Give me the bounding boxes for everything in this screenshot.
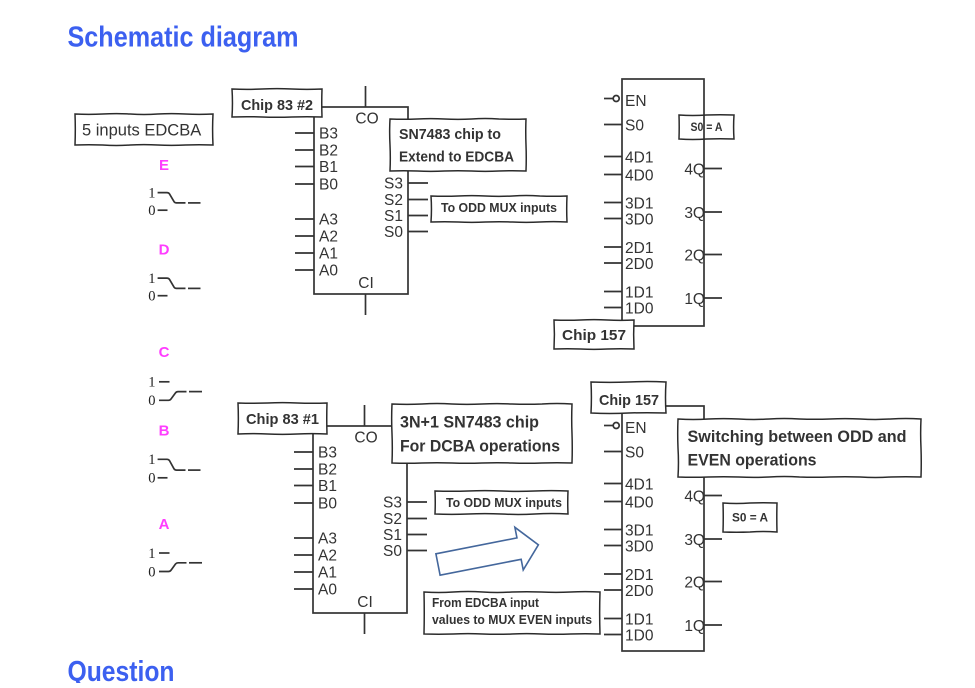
svg-text:S0: S0 [383,543,402,560]
svg-text:1D0: 1D0 [625,628,654,645]
svg-text:4D0: 4D0 [625,495,654,512]
svg-text:B3: B3 [319,125,338,142]
svg-text:3D0: 3D0 [625,539,654,556]
svg-text:2D0: 2D0 [625,256,654,273]
svg-text:2D1: 2D1 [625,567,653,584]
svg-text:0: 0 [148,289,155,305]
svg-text:A3: A3 [319,211,338,228]
svg-text:S0: S0 [384,224,403,241]
svg-text:S2: S2 [384,192,403,209]
svg-text:SN7483 chip to: SN7483 chip to [399,126,501,143]
svg-text:1Q: 1Q [684,618,705,635]
svg-text:A0: A0 [318,581,337,598]
svg-text:2D1: 2D1 [625,240,653,257]
svg-text:Chip 157: Chip 157 [599,392,659,409]
svg-text:1: 1 [148,185,155,201]
svg-text:0: 0 [148,203,155,219]
svg-text:3D0: 3D0 [625,212,654,229]
svg-text:3N+1 SN7483 chip: 3N+1 SN7483 chip [400,412,539,431]
svg-text:0: 0 [148,564,155,580]
svg-text:S1: S1 [384,208,403,225]
svg-text:3D1: 3D1 [625,196,653,213]
svg-text:1: 1 [148,375,155,391]
svg-text:S3: S3 [384,175,403,192]
svg-text:To ODD MUX inputs: To ODD MUX inputs [446,496,562,510]
svg-text:CI: CI [358,275,374,292]
svg-text:1D0: 1D0 [625,301,654,318]
svg-text:B1: B1 [319,159,338,176]
svg-text:1Q: 1Q [684,291,705,308]
svg-text:1D1: 1D1 [625,612,653,629]
svg-text:0: 0 [148,471,155,487]
svg-text:For DCBA operations: For DCBA operations [400,436,560,455]
svg-text:Chip 83 #2: Chip 83 #2 [241,97,313,114]
svg-text:Extend to EDCBA: Extend to EDCBA [399,149,514,166]
svg-text:1: 1 [148,452,155,468]
svg-text:Chip 83 #1: Chip 83 #1 [246,411,319,428]
svg-text:CO: CO [355,111,378,128]
svg-text:Schematic diagram: Schematic diagram [68,21,299,53]
svg-text:2D0: 2D0 [625,583,654,600]
svg-text:5 inputs EDCBA: 5 inputs EDCBA [82,121,201,139]
svg-text:4D1: 4D1 [625,150,653,167]
svg-text:S0 = A: S0 = A [691,120,723,134]
svg-text:B3: B3 [318,444,337,461]
svg-text:values to MUX EVEN inputs: values to MUX EVEN inputs [432,612,592,627]
svg-text:Chip 157: Chip 157 [562,327,626,344]
svg-text:4D0: 4D0 [625,168,654,185]
svg-text:D: D [159,242,170,259]
svg-text:C: C [159,344,170,361]
svg-text:EN: EN [625,93,647,110]
svg-text:2Q: 2Q [684,575,705,592]
svg-text:A2: A2 [319,228,338,245]
svg-text:EVEN operations: EVEN operations [688,451,817,470]
svg-text:1D1: 1D1 [625,285,653,302]
svg-text:3Q: 3Q [684,205,705,222]
svg-text:Question: Question [68,656,175,683]
svg-text:EN: EN [625,420,647,437]
svg-text:From EDCBA input: From EDCBA input [432,595,540,610]
svg-text:B2: B2 [319,142,338,159]
svg-text:3D1: 3D1 [625,523,653,540]
svg-text:S0: S0 [625,118,644,135]
svg-text:1: 1 [148,546,155,562]
svg-text:To ODD MUX inputs: To ODD MUX inputs [441,201,557,215]
svg-text:4Q: 4Q [684,489,705,506]
svg-text:S0 = A: S0 = A [732,511,768,525]
svg-text:B0: B0 [319,176,338,193]
svg-text:S0: S0 [625,445,644,462]
svg-text:A: A [159,516,170,533]
svg-text:4Q: 4Q [684,162,705,179]
svg-text:S2: S2 [383,511,402,528]
svg-text:B0: B0 [318,495,337,512]
svg-text:B1: B1 [318,478,337,495]
svg-text:E: E [159,157,169,174]
svg-text:3Q: 3Q [684,532,705,549]
svg-text:CO: CO [354,430,377,447]
svg-text:A2: A2 [318,547,337,564]
svg-text:0: 0 [148,393,155,409]
svg-text:A1: A1 [318,564,337,581]
svg-text:4D1: 4D1 [625,477,653,494]
svg-text:A0: A0 [319,262,338,279]
svg-text:B: B [159,423,170,440]
svg-text:CI: CI [357,594,373,611]
svg-text:S3: S3 [383,494,402,511]
svg-text:S1: S1 [383,527,402,544]
svg-text:A1: A1 [319,245,338,262]
svg-text:1: 1 [148,271,155,287]
svg-text:A3: A3 [318,530,337,547]
svg-text:Switching between ODD and: Switching between ODD and [688,427,907,446]
svg-text:2Q: 2Q [684,248,705,265]
svg-text:B2: B2 [318,461,337,478]
